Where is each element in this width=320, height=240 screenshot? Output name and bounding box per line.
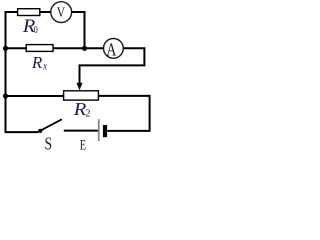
node C junction dot on left rail bbox=[3, 93, 8, 98]
wire Rx to ammeter bbox=[53, 47, 104, 49]
svg-text:E: E bbox=[80, 137, 87, 150]
svg-text:2: 2 bbox=[85, 108, 90, 119]
switch S pivot dot bbox=[38, 129, 42, 133]
svg-text:V: V bbox=[57, 4, 66, 21]
battery E short thick plate bbox=[103, 125, 107, 137]
battery E long plate bbox=[98, 119, 100, 141]
wire switch to battery bbox=[64, 130, 98, 132]
wire R2 to right rail to battery bbox=[98, 96, 149, 131]
svg-text:A: A bbox=[106, 41, 116, 60]
svg-text:S: S bbox=[45, 135, 53, 150]
wire left rail to R2 bbox=[6, 95, 64, 97]
resistor R0 bbox=[18, 9, 40, 16]
wiper arrowhead bbox=[77, 83, 83, 91]
voltmeter U1 circle bbox=[51, 2, 72, 23]
ammeter U2 circle bbox=[104, 39, 124, 59]
svg-text:R: R bbox=[73, 100, 87, 120]
svg-text:x: x bbox=[42, 60, 47, 73]
wire left rail to Rx bbox=[6, 47, 27, 49]
wire R0 to voltmeter bbox=[40, 11, 51, 13]
node B junction dot on left rail bbox=[3, 46, 8, 51]
wire ammeter to rheostat wiper bbox=[80, 48, 145, 84]
switch S blade bbox=[40, 119, 62, 131]
wire voltmeter to node A bbox=[72, 12, 85, 48]
resistor Rx bbox=[26, 45, 53, 52]
rheostat R2 bbox=[64, 91, 99, 100]
svg-text:R: R bbox=[31, 53, 43, 72]
wire left loop: top-left, left rail, bottom-left bbox=[6, 12, 39, 132]
node A junction dot bbox=[82, 46, 87, 51]
svg-text:0: 0 bbox=[34, 25, 38, 36]
